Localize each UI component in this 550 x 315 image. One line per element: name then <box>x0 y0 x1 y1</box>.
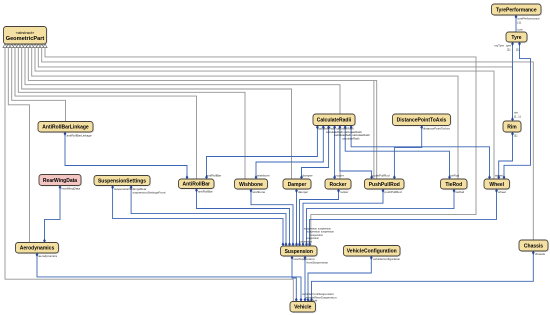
class Damper <box>283 179 312 190</box>
class Suspension <box>281 246 319 257</box>
svg-text:[1..1]: [1..1] <box>514 115 521 119</box>
wire generalization AntiRollBar-GeometricPart <box>15 48 197 179</box>
svg-text:DistancePointToAxis: DistancePointToAxis <box>397 118 447 124</box>
wire composition AntiRollBarLinkage-AntiRollBar <box>65 132 187 179</box>
wire composition Chassis-Vehicle <box>312 251 534 302</box>
svg-text:damper: damper <box>298 190 308 194</box>
class VehicleConfiguration <box>344 246 402 258</box>
svg-text:rocker: rocker <box>340 190 348 194</box>
wire generalization Vehicle-GeometricPart <box>5 48 293 302</box>
wire composition Aerodynamics-Vehicle <box>37 253 301 302</box>
wire composition DistancePointToAxis-PushPullRod <box>394 126 421 180</box>
svg-text:antiRollBar: antiRollBar <box>207 174 222 178</box>
svg-text:antiRollBar: antiRollBar <box>198 190 213 194</box>
svg-text:Rocker: Rocker <box>330 182 347 188</box>
svg-text:Wheel: Wheel <box>489 182 504 188</box>
wire composition CalculateRadii-Wishbone <box>256 126 323 180</box>
class SuspensionSettings <box>94 176 151 187</box>
svg-text:chassis: chassis <box>535 252 546 256</box>
svg-text:VehicleConfiguration: VehicleConfiguration <box>347 249 397 255</box>
wire generalization Suspension-GeometricPart <box>45 48 476 246</box>
wire composition AntiRollBar-Suspension <box>197 189 290 247</box>
wire generalization Rocker-GeometricPart <box>25 48 340 179</box>
svg-text:pushPullRod: pushPullRod <box>373 174 390 178</box>
svg-text:Vehicle: Vehicle <box>294 305 311 311</box>
wire generalization Rim-GeometricPart (under blue) <box>38 48 512 121</box>
class AntiRollBar <box>179 179 216 190</box>
svg-text:suspension: suspension <box>299 239 313 243</box>
wire composition VehicleConfiguration-Vehicle <box>308 256 371 302</box>
wire composition TyrePerformance-Tyre <box>515 15 517 32</box>
svg-text:frontSuspension: frontSuspension <box>307 261 329 265</box>
svg-text:damper: damper <box>303 174 313 178</box>
wire composition Rocker-Suspension <box>300 189 339 246</box>
wire composition Suspension-Vehicle rear <box>292 256 296 302</box>
class Aerodynamics <box>16 243 60 255</box>
svg-text:AntiRollBarLinkage: AntiRollBarLinkage <box>42 125 89 131</box>
wire generalization PushPullRod-GeometricPart <box>28 48 376 179</box>
svg-text:Suspension: Suspension <box>285 249 313 255</box>
wire composition CalculateRadii-PushPullRod <box>340 126 372 180</box>
wire composition Damper-Suspension <box>296 189 298 246</box>
wire generalization Wheel-GeometricPart <box>35 48 494 179</box>
svg-text:pushPullRod: pushPullRod <box>385 190 402 194</box>
svg-text:tieRod: tieRod <box>456 190 465 194</box>
wire generalization Chassis-GeometricPart <box>42 48 534 240</box>
inheritance arrowheads (hollow triangles) under GeometricPart <box>3 44 7 48</box>
class Wheel <box>484 179 511 190</box>
svg-text:SuspensionSettings: SuspensionSettings <box>98 178 146 184</box>
svg-text:wishbone: wishbone <box>257 174 270 178</box>
wire composition Tyre-Rim <box>512 42 514 121</box>
wire composition CalculateRadii-TieRod <box>345 126 449 180</box>
class TyrePerformance <box>492 4 543 16</box>
svg-text:aerodynamics: aerodynamics <box>39 254 58 258</box>
svg-text:distancePointToAxis: distancePointToAxis <box>423 127 450 131</box>
svg-text:CalculateRadii: CalculateRadii <box>317 118 352 124</box>
class GeometricPart (abstract) <box>4 27 48 46</box>
svg-text:TyrePerformance: TyrePerformance <box>496 7 537 13</box>
wire generalization PushPullRod parallel segment <box>373 81 375 179</box>
class RearWingData <box>39 175 82 187</box>
wire composition CalculateRadii-Rocker <box>334 126 336 180</box>
wire composition SuspensionSettings-Suspension front <box>131 186 286 247</box>
class Wishbone <box>235 179 269 190</box>
class PushPullRod <box>365 179 406 190</box>
class DistancePointToAxis <box>393 114 452 127</box>
class AntiRollBarLinkage <box>38 122 94 134</box>
class Tyre <box>506 32 528 43</box>
svg-text:[1]: [1] <box>507 48 511 52</box>
wire composition TieRod-Suspension <box>307 189 455 246</box>
wire composition CalculateRadii-AntiRollBar <box>207 126 318 180</box>
svg-text:vehicle: vehicle <box>308 299 318 303</box>
svg-text:rearWingData: rearWingData <box>62 187 81 191</box>
wire composition SuspensionSettings-Suspension rear <box>113 186 283 247</box>
svg-text:tyre: tyre <box>518 28 523 32</box>
svg-text:vehicleConfiguration: vehicleConfiguration <box>373 257 401 261</box>
wire composition Suspension-Vehicle front <box>304 256 306 302</box>
svg-text:[1]: [1] <box>514 134 518 138</box>
wire composition CalculateRadii-Damper <box>302 126 329 180</box>
svg-text:Chassis: Chassis <box>524 243 543 249</box>
wire generalization TieRod-GeometricPart <box>32 48 458 179</box>
svg-text:RearWingData: RearWingData <box>43 178 77 184</box>
svg-text:Tyre: Tyre <box>511 35 521 41</box>
wire generalization Wishbone-GeometricPart <box>18 48 245 179</box>
wire composition Rim-Wheel <box>499 132 513 179</box>
svg-text:suspensionSettingsFront: suspensionSettingsFront <box>133 190 166 194</box>
wire generalization Damper-GeometricPart <box>22 48 292 179</box>
wire composition CalculateRadii-Wheel <box>351 126 489 180</box>
wire composition PushPullRod-Suspension <box>303 189 383 246</box>
svg-text:myTyre: myTyre <box>494 44 504 48</box>
class Rim <box>503 121 522 133</box>
svg-text:rocker: rocker <box>336 174 344 178</box>
svg-text:GeometricPart: GeometricPart <box>6 36 45 42</box>
svg-text:Wishbone: Wishbone <box>239 182 263 188</box>
wire generalization AntiRollBarLinkage-GeometricPart <box>12 48 66 122</box>
svg-text:calculateRadii: calculateRadii <box>342 136 360 140</box>
svg-text:tyrePerformance: tyrePerformance <box>518 17 541 21</box>
svg-text:TieRod: TieRod <box>445 182 462 188</box>
svg-text:antiRollBarLinkage: antiRollBarLinkage <box>67 134 93 138</box>
svg-text:«abstract»: «abstract» <box>16 30 35 35</box>
svg-text:[1]: [1] <box>518 21 522 25</box>
wire composition Tyre-Wheel <box>504 42 531 179</box>
class Vehicle <box>290 302 317 314</box>
svg-text:PushPullRod: PushPullRod <box>369 182 400 188</box>
wire composition RearWingData-Aerodynamics <box>45 186 61 243</box>
wire composition Wishbone-Suspension <box>251 189 293 246</box>
class Rocker <box>325 179 352 190</box>
class TieRod <box>441 179 469 190</box>
wire generalization Aerodynamics-GeometricPart <box>8 48 29 243</box>
svg-text:tieRod: tieRod <box>451 174 460 178</box>
wire composition Wheel-Suspension <box>310 189 497 246</box>
svg-text:wishbone: wishbone <box>253 190 266 194</box>
class CalculateRadii <box>313 114 356 127</box>
class Chassis <box>519 240 549 252</box>
svg-text:AntiRollBar: AntiRollBar <box>183 182 211 188</box>
svg-text:wheel: wheel <box>495 174 503 178</box>
svg-text:Damper: Damper <box>288 182 307 188</box>
svg-text:[1]: [1] <box>516 48 520 52</box>
svg-text:wheel: wheel <box>498 190 506 194</box>
svg-text:Rim: Rim <box>507 124 517 130</box>
svg-text:Aerodynamics: Aerodynamics <box>20 246 55 252</box>
